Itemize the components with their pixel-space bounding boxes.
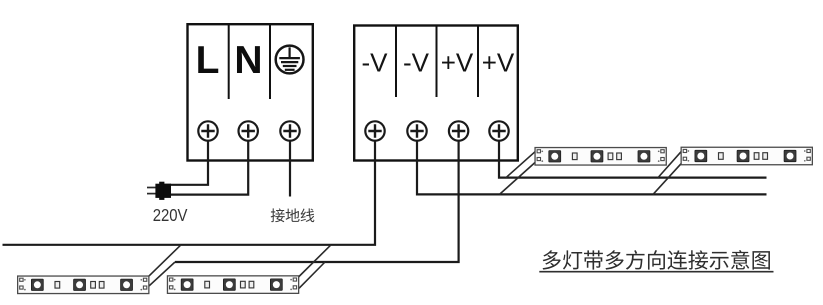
branch wire to strip4 top pad bbox=[658, 150, 682, 177]
divider N/PE bbox=[269, 25, 271, 99]
terminal N bbox=[239, 121, 258, 140]
svg-text:N: N bbox=[234, 39, 262, 82]
branch wire to strip1 top pad bbox=[148, 245, 182, 278]
divider L/N bbox=[228, 25, 230, 99]
LED strip 4 bbox=[681, 147, 812, 165]
LED strip 3 bbox=[535, 148, 666, 166]
wire +V1 long left bbox=[175, 141, 459, 262]
svg-text:-V: -V bbox=[362, 48, 389, 78]
terminal -V2 bbox=[407, 121, 426, 140]
AC plug body bbox=[155, 182, 171, 200]
svg-text:-V: -V bbox=[403, 48, 430, 78]
branch wire to strip2 bottom pad bbox=[299, 262, 325, 288]
branch wire to strip1 bottom pad bbox=[147, 262, 175, 288]
wire L to plug bbox=[170, 141, 208, 185]
branch wire to strip3 top pad bbox=[506, 151, 536, 177]
AC plug prong upper bbox=[147, 187, 157, 189]
wire N to plug bbox=[170, 141, 248, 195]
divider 2 bbox=[436, 27, 438, 98]
svg-text:L: L bbox=[196, 39, 220, 82]
svg-text:+V: +V bbox=[482, 48, 515, 78]
divider 1 bbox=[395, 27, 397, 98]
wire -V2 long right bbox=[417, 141, 767, 195]
branch wire to strip2 top pad bbox=[299, 245, 332, 277]
title 多灯带多方向连接示意图 bbox=[543, 250, 561, 269]
terminal +V1 bbox=[449, 121, 468, 140]
protective earth symbol bbox=[276, 46, 304, 74]
LED strip 2 bbox=[167, 276, 298, 294]
branch wire to strip3 bottom pad bbox=[500, 162, 537, 195]
AC plug prong lower bbox=[147, 193, 157, 195]
DC output terminal block bbox=[354, 26, 518, 161]
svg-text:220V: 220V bbox=[153, 205, 188, 225]
terminal PE bbox=[280, 121, 299, 140]
title underline bbox=[539, 271, 773, 273]
label 接地线 (earth wire) bbox=[271, 208, 285, 222]
terminal L bbox=[198, 121, 217, 140]
wire PE stub bbox=[289, 141, 291, 197]
svg-text:+V: +V bbox=[441, 48, 474, 78]
divider 3 bbox=[477, 27, 479, 98]
branch wire to strip4 bottom pad bbox=[653, 162, 683, 195]
AC input terminal block (power supply input) bbox=[188, 24, 313, 160]
terminal -V1 bbox=[365, 121, 384, 140]
wire +V2 long right bbox=[499, 141, 767, 178]
LED strip 1 bbox=[18, 276, 149, 294]
terminal +V2 bbox=[489, 121, 508, 140]
wire -V1 long left bbox=[3, 141, 376, 245]
